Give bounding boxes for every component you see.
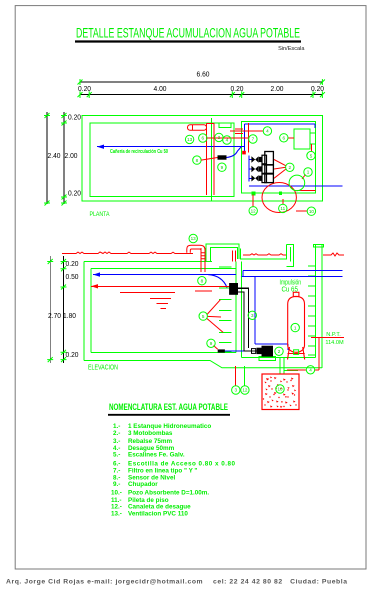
recirculation arrowhead xyxy=(97,145,104,149)
svg-text:4: 4 xyxy=(226,138,229,143)
callout 8 xyxy=(193,156,201,164)
leader to callout 3b xyxy=(235,366,237,386)
callout 4e xyxy=(306,366,314,374)
callout 3 xyxy=(215,133,223,141)
hatch tray sketch line (red) xyxy=(243,254,287,255)
discharge lines exit right (blue) xyxy=(243,269,343,271)
ladder rungs on right wall (green) xyxy=(308,266,316,355)
vent gooseneck (red) xyxy=(187,245,205,253)
svg-text:Pozo Absorbente D=1.00m.: Pozo Absorbente D=1.00m. xyxy=(128,490,209,497)
red line along room bottom xyxy=(296,189,315,191)
tank inner wall (plan) xyxy=(90,123,234,197)
recirculation arrowhead (elev) xyxy=(93,272,100,276)
title: DETALLE ESTANQUE ACUMULACION AGUA POTABLE xyxy=(75,26,305,53)
pump unit (black) xyxy=(262,346,274,357)
svg-text:N.P.T.: N.P.T. xyxy=(326,332,341,338)
svg-text:12: 12 xyxy=(242,388,248,393)
callout 2e xyxy=(275,347,283,355)
svg-text:0.50: 0.50 xyxy=(66,274,79,281)
svg-text:3: 3 xyxy=(235,388,238,393)
svg-text:0.20: 0.20 xyxy=(68,115,81,122)
vent pipes through slab (red) xyxy=(200,248,202,272)
callout circles (plan) xyxy=(185,127,315,216)
ladder rungs on dividing wall (green) xyxy=(219,266,316,355)
svg-text:Impulsión: Impulsión xyxy=(280,280,302,287)
svg-text:2.-: 2.- xyxy=(113,430,120,437)
hydro tank (red, elev) xyxy=(288,292,305,359)
callout 12 xyxy=(249,207,257,215)
green tick marks xyxy=(78,79,325,98)
pump pedestal xyxy=(259,357,276,361)
svg-text:9: 9 xyxy=(221,165,224,170)
svg-text:13.-: 13.- xyxy=(111,510,122,517)
svg-text:10: 10 xyxy=(309,209,315,214)
svg-text:6.-: 6.- xyxy=(113,460,120,467)
tank outer wall (plan) xyxy=(82,116,323,202)
svg-text:7: 7 xyxy=(252,137,255,142)
ventilation pipe (plan, vertical green) xyxy=(211,118,213,201)
callout 4 xyxy=(223,136,231,144)
callout 6b xyxy=(280,134,288,142)
svg-text:DETALLE ESTANQUE ACUMULACION A: DETALLE ESTANQUE ACUMULACION AGUA POTABL… xyxy=(76,26,300,41)
svg-text:Cu 65: Cu 65 xyxy=(281,287,298,294)
top dimension chain xyxy=(78,72,325,99)
overall dim 6.60 xyxy=(80,81,322,83)
svg-text:Ventilacion PVC 110: Ventilacion PVC 110 xyxy=(128,510,188,517)
callout 9 xyxy=(218,163,226,171)
sensor cable curve (blue) xyxy=(227,147,242,158)
recirculation line (blue, elev) xyxy=(93,274,236,276)
svg-text:13: 13 xyxy=(191,236,197,241)
svg-text:NOMENCLATURA EST. AGUA POTABLE: NOMENCLATURA EST. AGUA POTABLE xyxy=(109,402,228,412)
overflow pipe (red, plan) xyxy=(206,124,208,195)
svg-text:10: 10 xyxy=(277,387,283,392)
pump discharge riser (blue) xyxy=(254,276,256,344)
access hatch (plan, red) xyxy=(188,125,207,131)
overflow level line (red) xyxy=(195,290,212,292)
svg-text:PLANTA: PLANTA xyxy=(90,211,110,218)
callout 13 xyxy=(185,135,193,143)
svg-text:Escotilla de Acceso 0.80 x 0.8: Escotilla de Acceso 0.80 x 0.80 xyxy=(128,460,235,467)
svg-text:8: 8 xyxy=(201,278,204,283)
title underline xyxy=(75,40,301,42)
chupador leader (red) xyxy=(214,346,218,350)
tank inner floor (elev) xyxy=(91,351,236,353)
svg-text:10.-: 10.- xyxy=(111,490,122,497)
svg-text:2: 2 xyxy=(289,165,292,170)
water level line (red) xyxy=(91,285,236,287)
impulsion line top of room (blue) xyxy=(245,123,316,125)
tank base fitting (green) xyxy=(294,350,299,355)
svg-text:5.-: 5.- xyxy=(113,452,120,459)
recirculation main line (blue, plan) xyxy=(97,146,245,148)
svg-text:6: 6 xyxy=(283,136,286,141)
callout 5 xyxy=(307,151,315,159)
leader to 10 xyxy=(296,210,307,212)
svg-text:0.20: 0.20 xyxy=(66,261,79,268)
legend NOMENCLATURA xyxy=(108,402,235,517)
pump room floor (elev) xyxy=(242,357,316,359)
control panel small box xyxy=(310,133,316,144)
callout 3e xyxy=(248,311,256,319)
svg-text:12: 12 xyxy=(251,209,257,214)
svg-text:2: 2 xyxy=(278,349,281,354)
callout 1e xyxy=(291,323,299,331)
structure outer floor (elev) xyxy=(84,361,322,368)
suction foot valve (black) xyxy=(229,283,238,295)
svg-text:0.20: 0.20 xyxy=(68,191,81,198)
red riser in room (plan) xyxy=(248,123,250,153)
svg-text:0.20: 0.20 xyxy=(66,352,79,359)
svg-text:8: 8 xyxy=(196,158,199,163)
svg-text:114.0M: 114.0M xyxy=(325,340,344,346)
tank legs (red) xyxy=(288,347,305,360)
tank outer wall left (elev) xyxy=(83,261,85,360)
ground line right of tank (red) xyxy=(323,253,344,256)
red pipe callout row (plan) xyxy=(207,137,249,139)
pozo absorbente (red hatched square) xyxy=(262,374,299,410)
svg-text:2.40: 2.40 xyxy=(48,153,61,160)
level sensor box (black, plan) xyxy=(218,155,227,159)
pozo connection stubs xyxy=(279,358,281,374)
pump room wall (plan) xyxy=(242,122,316,194)
discharge line exits right (blue, plan) xyxy=(249,185,343,187)
vent/overflow header (red, plan) xyxy=(207,123,214,125)
floor drain node xyxy=(251,191,255,195)
suction connection node (red, plan) xyxy=(242,151,246,155)
svg-text:3: 3 xyxy=(218,135,221,140)
svg-text:6.60: 6.60 xyxy=(197,72,210,79)
svg-text:3: 3 xyxy=(251,313,254,318)
callout 4b xyxy=(263,127,271,135)
water level arrowhead (red) xyxy=(91,284,98,288)
callout 8e xyxy=(198,277,206,285)
leader circle1 to valve circle xyxy=(302,175,306,180)
callout 2 xyxy=(286,163,294,171)
svg-text:5: 5 xyxy=(310,153,313,158)
svg-text:Escalines Fe. Galv.: Escalines Fe. Galv. xyxy=(128,452,185,459)
tank inner wall (elev) xyxy=(91,268,236,270)
svg-text:2.70: 2.70 xyxy=(48,313,61,320)
callout 3b xyxy=(232,386,240,394)
svg-text:Chupador: Chupador xyxy=(128,481,158,488)
red leader line from 8 xyxy=(201,158,217,161)
left dimension chain (PLANTA) xyxy=(44,112,81,206)
svg-text:ELEVACION: ELEVACION xyxy=(88,364,118,371)
pozo circle (red, plan) xyxy=(262,183,296,213)
vent pipe hatch marks (red) xyxy=(201,253,206,259)
manifold header (blue, plan) xyxy=(248,156,250,182)
svg-text:Arq. Jorge Cid Rojas e-mail: j: Arq. Jorge Cid Rojas e-mail: jorgecidr@h… xyxy=(6,579,347,586)
svg-text:1: 1 xyxy=(307,170,310,175)
NPT leader (red) xyxy=(311,337,344,339)
leader line to callout 4 (green part) xyxy=(284,369,298,371)
control panel box xyxy=(294,129,310,149)
callout 7 xyxy=(249,135,257,143)
footer xyxy=(6,579,347,586)
pump manifold (black, plan) xyxy=(251,152,273,183)
dim line row 2 xyxy=(80,94,322,96)
elevation callouts xyxy=(189,234,315,394)
callout 5e xyxy=(199,312,207,320)
svg-text:2.00: 2.00 xyxy=(271,86,284,93)
callout 13e xyxy=(189,234,197,242)
svg-text:11: 11 xyxy=(280,206,285,211)
red pipe into room upper xyxy=(230,130,263,132)
callout 10 xyxy=(307,207,315,215)
svg-text:13: 13 xyxy=(187,137,193,142)
svg-text:Sin/Escala: Sin/Escala xyxy=(278,46,305,52)
access hatch cover lid (elev) xyxy=(206,244,239,261)
callout 10b xyxy=(276,385,284,393)
sensor cable (blue, elev) xyxy=(208,275,227,288)
room right wall (elev) xyxy=(315,245,317,358)
svg-text:5: 5 xyxy=(202,314,205,319)
PLANTA view xyxy=(82,116,343,219)
svg-text:1.80: 1.80 xyxy=(63,313,76,320)
leader to 11 xyxy=(282,199,284,204)
natural ground sketch line (red) xyxy=(62,252,193,254)
svg-text:Cañería de recirculación Cu 50: Cañería de recirculación Cu 50 xyxy=(110,149,168,155)
drain pipe (red, plan) xyxy=(213,124,215,195)
red stub to panel circle xyxy=(311,144,313,152)
hatch tray (elev) xyxy=(241,245,287,260)
callout 9e xyxy=(207,339,215,347)
ELEVACION view xyxy=(47,234,344,409)
legend title underline xyxy=(108,414,230,416)
svg-text:4.00: 4.00 xyxy=(154,86,167,93)
suction pipe (black, elev) xyxy=(236,288,257,351)
svg-text:9.-: 9.- xyxy=(113,481,120,488)
suction line from chupador (blue) xyxy=(225,350,258,352)
callout 6 xyxy=(199,134,207,142)
overflow pipes at hatch lid (red, elev) xyxy=(231,251,233,262)
escalines fan leaders (red) xyxy=(207,300,224,333)
callout 1 xyxy=(304,168,312,176)
svg-text:4: 4 xyxy=(266,129,269,134)
chupador (black box) xyxy=(218,349,225,352)
pump fan leader lines (red) xyxy=(274,160,286,179)
tank top slab (elev) xyxy=(84,260,212,262)
leader line to callout 12b xyxy=(243,366,245,386)
svg-text:6: 6 xyxy=(202,136,205,141)
svg-text:1: 1 xyxy=(294,325,297,330)
dividing wall (elev) xyxy=(235,261,237,352)
inlet box (plan, green) xyxy=(219,123,231,127)
red wall crossing stubs xyxy=(235,128,243,130)
left dimension chain (ELEVACION) xyxy=(47,256,78,363)
callout 12b xyxy=(241,386,249,394)
svg-text:3 Motobombas: 3 Motobombas xyxy=(128,430,173,437)
red link callout6b to panel xyxy=(288,137,294,139)
svg-text:4: 4 xyxy=(309,368,312,373)
valve circle 3 (plan) xyxy=(289,175,305,191)
svg-text:2.00: 2.00 xyxy=(65,153,78,160)
svg-text:9: 9 xyxy=(210,341,213,346)
water level symbol xyxy=(120,293,175,309)
leader to 12 xyxy=(252,195,254,207)
callout 11 xyxy=(279,204,287,212)
